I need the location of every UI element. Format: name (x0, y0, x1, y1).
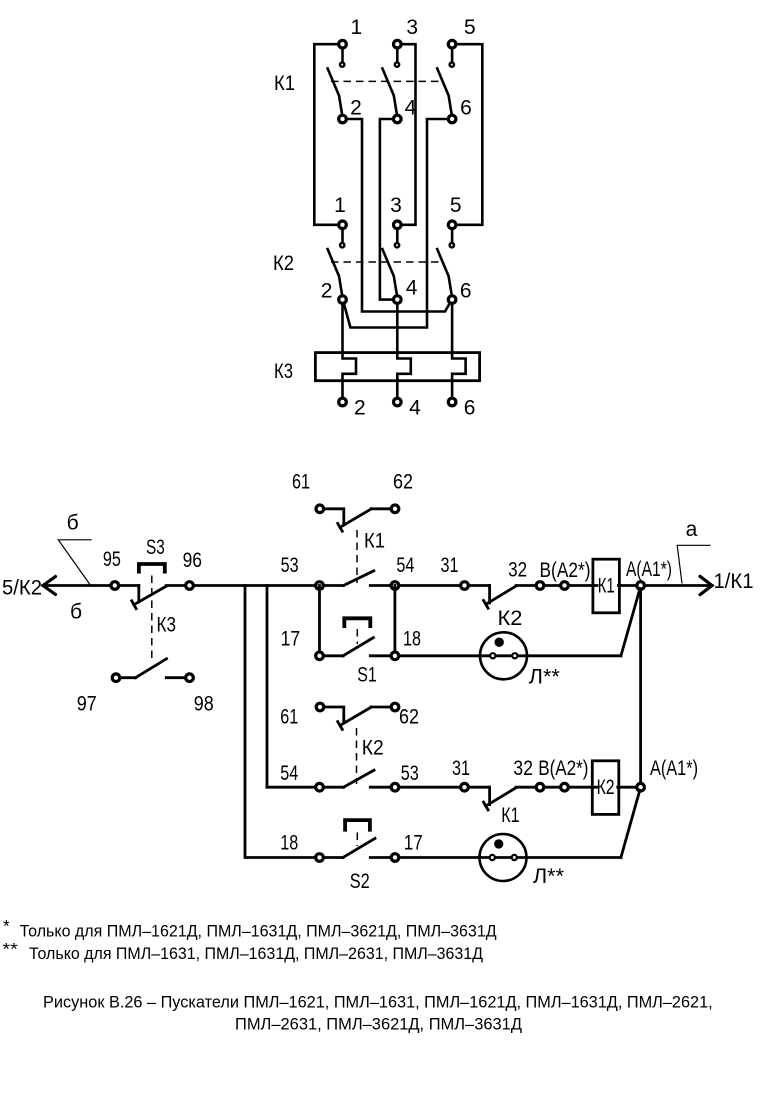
terminal 53 (row1) (316, 582, 324, 590)
K3 heater element 1 (343, 353, 357, 399)
svg-text:3: 3 (406, 16, 418, 39)
aux contact K1 61-62 blade tick (338, 523, 343, 531)
signal lamp body (row2) (480, 834, 527, 881)
terminal B(A2*) (row2) (561, 783, 569, 791)
signal lamp body (row1) (480, 632, 527, 679)
svg-text:*: * (3, 917, 10, 936)
svg-text:95: 95 (103, 548, 121, 571)
wire: K1 contact 6 crossover to K2 contact 2 (343, 119, 452, 328)
svg-text:18: 18 (280, 832, 298, 855)
aux contact K1 61-62 stub and bend (323, 509, 343, 525)
svg-text:К2: К2 (273, 252, 294, 275)
svg-text:ПМЛ–2631, ПМЛ–3621Д, ПМЛ–3631Д: ПМЛ–2631, ПМЛ–3621Д, ПМЛ–3631Д (235, 1015, 522, 1034)
terminal 95 (111, 582, 119, 590)
aux contact K2 61-62 blade (row2) (340, 707, 371, 725)
K2 terminal 6 (448, 296, 456, 304)
svg-text:62: 62 (399, 706, 419, 729)
K1 pole 1 fixed contact (340, 62, 344, 66)
svg-text:Л**: Л** (529, 666, 560, 689)
lamp contact right (row2) (512, 855, 517, 860)
svg-text:К2: К2 (597, 776, 615, 799)
button S2 bracket (345, 820, 370, 832)
svg-text:S3: S3 (146, 536, 165, 559)
coil K1 box (593, 559, 620, 613)
wire: right bus A(A1*) row1 down to row2 (639, 589, 642, 784)
contact S2 blade (343, 838, 375, 857)
aux contact K2 61-62 stub and bend (row2) (324, 707, 344, 723)
svg-text:К1: К1 (364, 530, 385, 553)
K2 pole 1 blade (328, 249, 343, 296)
svg-text:В(А2*): В(А2*) (538, 757, 588, 780)
terminal 31 (row1) (461, 582, 469, 590)
terminal A(A1*) (row2) (637, 783, 645, 791)
wire: K1 terminal 3 right bus down to K2 terminal 3 (397, 44, 415, 225)
contact K1 53-54 blade (344, 571, 374, 586)
K1 terminal 1 (339, 40, 347, 48)
K2 terminal 1 (339, 221, 347, 229)
arrow to 1/K1 (700, 576, 712, 594)
terminal 54 (row2) (316, 783, 324, 791)
S2 linkage dashed (356, 833, 358, 847)
svg-text:К1: К1 (598, 575, 615, 598)
arrow to 5/K2 (43, 577, 56, 595)
K1 pole 2 fixed contact (395, 62, 399, 66)
K1 pole 3 fixed contact (450, 62, 454, 66)
coil K2 box (592, 761, 619, 815)
aux contact K1 61-62 stub right (371, 507, 391, 510)
svg-text:98: 98 (194, 693, 214, 716)
svg-text:17: 17 (404, 832, 423, 855)
contact K3 97-98 stub right (166, 676, 189, 679)
terminal 32 (row1) (536, 582, 544, 590)
terminal 61 (row1) (316, 505, 324, 513)
svg-text:31: 31 (441, 554, 459, 577)
lamp dot (row1) (495, 638, 504, 647)
K2 aux linkage dashed (row2) (356, 728, 358, 784)
wire: K1 contact 2 crossover to K2 contact 6 (343, 119, 452, 312)
K1 terminal 2 (339, 115, 347, 123)
svg-text:53: 53 (401, 762, 419, 785)
terminal 97 (112, 674, 120, 682)
svg-text:31: 31 (452, 757, 470, 780)
wire: 53 down to 17 (318, 586, 321, 656)
K1 terminal 4 (394, 115, 402, 123)
button S1 bracket (344, 618, 370, 628)
contact K3 97-98 stub left (116, 676, 136, 679)
K1 pole 1 fixed stem (341, 44, 344, 64)
K2 pole 1 fixed contact (340, 243, 344, 247)
K3 output terminal 4 (394, 398, 402, 406)
K1 terminal 3 (394, 40, 402, 48)
svg-text:1/К1: 1/К1 (714, 570, 754, 593)
svg-text:5: 5 (464, 16, 476, 39)
K1 pole 2 fixed stem (396, 44, 399, 64)
terminal 62 (row1) (391, 505, 399, 513)
lamp contact left (row1) (490, 653, 495, 658)
wire: row2 main line from bus B to contact 54-53 (267, 786, 344, 789)
node a leader line (677, 545, 710, 583)
terminal B(A2*) (row1) (561, 582, 569, 590)
S1 linkage dashed (356, 629, 358, 644)
contact K3 95-96 blade tick (132, 601, 136, 609)
K3 output terminal 6 (448, 398, 456, 406)
svg-text:Только для ПМЛ–1621Д, ПМЛ–1631: Только для ПМЛ–1621Д, ПМЛ–1631Д, ПМЛ–362… (20, 922, 497, 941)
K2 pole 3 blade (437, 249, 452, 296)
S3/K3 linkage dashed line (151, 576, 153, 662)
svg-text:18: 18 (403, 628, 421, 651)
terminal 31 (row2) (461, 783, 469, 791)
K1 terminal 6 (448, 115, 456, 123)
svg-text:Рисунок В.26 – Пускатели ПМЛ–1: Рисунок В.26 – Пускатели ПМЛ–1621, ПМЛ–1… (43, 993, 713, 1012)
terminal 61 (row2) (316, 703, 324, 711)
K1 pole 3 fixed stem (451, 44, 454, 64)
NC contact K1 blade tick (row2) (484, 802, 489, 810)
svg-text:6: 6 (460, 280, 472, 303)
thermal relay K3 box (315, 353, 479, 381)
NC contact K1 blade (row2) (486, 788, 516, 806)
K2 linkage dashed line (331, 261, 443, 263)
NC contact K1 fixed lead bend (row2) (488, 787, 491, 804)
svg-text:Л**: Л** (533, 865, 564, 888)
svg-text:1: 1 (351, 16, 363, 39)
contact S2 stub right (370, 856, 391, 859)
terminal 18 (row2) (316, 854, 324, 862)
svg-text:97: 97 (77, 693, 97, 716)
wire: diagonal lamp line up to A(A1*) (row1) (621, 589, 640, 656)
svg-text:6: 6 (464, 397, 476, 420)
wire: 32 through coil K2 to A(A1*) (row2) (516, 786, 641, 789)
wire: 53 to NC contact K1 (row2) (370, 786, 489, 789)
svg-text:б: б (70, 600, 82, 623)
terminal 17 (row2) (391, 854, 399, 862)
K2 pole 2 fixed contact (395, 243, 399, 247)
svg-text:2: 2 (350, 97, 362, 120)
K1 pole 3 blade (437, 69, 452, 116)
NC contact K2 blade tick (row1) (484, 600, 489, 608)
svg-text:5: 5 (450, 194, 462, 217)
contact K2 54-53 blade (row2) (344, 770, 375, 787)
wire: main control line left segment to 95 (43, 584, 139, 587)
svg-text:К1: К1 (501, 804, 519, 827)
K2 terminal 3 (394, 221, 402, 229)
svg-text:S2: S2 (350, 870, 370, 893)
svg-text:а: а (686, 518, 698, 541)
svg-text:В(А2*): В(А2*) (540, 559, 591, 582)
terminal 18 (row1) (391, 652, 399, 660)
wire: K2 contact 2 down to K3 heater (341, 300, 344, 353)
wire: main control line 96 to contact 53-54 (166, 584, 343, 587)
wire: left bus B from junction down to row2 main (266, 586, 269, 788)
svg-text:Только для ПМЛ–1631, ПМЛ–1631Д: Только для ПМЛ–1631, ПМЛ–1631Д, ПМЛ–2631… (29, 944, 483, 963)
K1 pole 1 blade (328, 69, 343, 116)
NC contact K2 fixed lead bend (row1) (488, 586, 491, 603)
wire: 17 through lamp to diagonal (row2) (399, 856, 621, 859)
terminal 32 (row2) (536, 783, 544, 791)
contact S2 stub left (323, 856, 343, 859)
terminal 98 (186, 674, 194, 682)
node b leader line (58, 540, 91, 585)
svg-text:А(А1*): А(А1*) (650, 757, 698, 780)
K2 pole 2 blade (382, 249, 397, 296)
svg-text:62: 62 (393, 471, 413, 494)
wire: K2 contact 4 down to K3 heater (396, 300, 399, 353)
terminal 17 (row1) (316, 652, 324, 660)
svg-text:4: 4 (405, 97, 417, 120)
contact S1 blade (343, 638, 373, 656)
svg-text:4: 4 (409, 397, 421, 420)
svg-text:32: 32 (513, 757, 533, 780)
K2 pole 3 fixed contact (450, 243, 454, 247)
svg-text:32: 32 (508, 559, 527, 582)
svg-text:53: 53 (281, 554, 299, 577)
K2 pole 2 fixed stem (396, 225, 399, 245)
K1 linkage dashed line (331, 80, 443, 82)
K1 terminal 5 (448, 40, 456, 48)
K3 output terminal 2 (339, 398, 347, 406)
svg-text:2: 2 (354, 397, 366, 420)
K3 heater element 2 (397, 353, 411, 399)
contact S1 stub right (370, 654, 391, 657)
terminal 96 (186, 582, 194, 590)
wire: diagonal lamp line up to A(A1*) (row2) (621, 790, 640, 857)
wire: K1 terminal 5 right bus down to K2 terminal 5 (452, 44, 482, 225)
svg-text:3: 3 (390, 194, 402, 217)
svg-text:17: 17 (281, 628, 301, 651)
terminal A(A1*) (row1) (637, 582, 645, 590)
K2 terminal 5 (448, 221, 456, 229)
svg-text:54: 54 (280, 762, 298, 785)
wire: 32 through coil K1 to arrow (516, 584, 712, 587)
NC contact K2 blade (row1) (486, 586, 516, 604)
K2 terminal 4 (394, 296, 402, 304)
svg-text:1: 1 (334, 194, 346, 217)
K2 pole 1 fixed stem (341, 225, 344, 245)
svg-text:К2: К2 (362, 737, 384, 760)
svg-text:б: б (67, 512, 79, 535)
contact K3 97-98 blade (136, 659, 167, 678)
svg-text:5/К2: 5/К2 (2, 577, 42, 600)
K1 aux linkage dashed (356, 530, 358, 583)
svg-text:54: 54 (396, 554, 414, 577)
contact K3 95-96 fixed lead bend (137, 586, 140, 602)
contact K3 95-96 blade (134, 586, 166, 605)
aux contact K2 61-62 stub right (row2) (371, 706, 391, 709)
wire: 54 to NC contact K2 (370, 584, 489, 587)
K2 pole 3 fixed stem (451, 225, 454, 245)
svg-text:2: 2 (321, 280, 333, 303)
aux contact K1 61-62 blade (340, 509, 371, 527)
terminal 54 (row1) (391, 582, 399, 590)
svg-text:4: 4 (406, 277, 418, 300)
svg-text:61: 61 (292, 471, 310, 494)
wire: 54 down to 18 (393, 586, 396, 656)
svg-text:К3: К3 (274, 360, 293, 383)
button S3 bracket (139, 564, 165, 574)
wire: 18 through lamp to diagonal (row1) (399, 654, 621, 657)
K3 heater element 3 (452, 353, 466, 399)
terminal 62 (row2) (391, 703, 399, 711)
svg-text:А(А1*): А(А1*) (626, 558, 672, 581)
wire: K1 contact 4 down to K2 contact 4 (380, 119, 397, 300)
wire: K2 contact 6 down to K3 heater (451, 300, 454, 353)
lamp contact left (row2) (490, 855, 495, 860)
contact S1 stub left (323, 654, 343, 657)
svg-text:6: 6 (460, 97, 472, 120)
terminal 53 (row2) (391, 783, 399, 791)
K1 pole 2 blade (382, 69, 397, 116)
wire: K1 terminal 1 to left bus down to K2 terminal 1 (314, 44, 342, 225)
svg-text:К1: К1 (274, 72, 295, 95)
svg-text:К3: К3 (157, 614, 177, 637)
lamp dot (row2) (494, 839, 503, 848)
aux contact K2 61-62 blade tick (row2) (338, 722, 343, 730)
svg-text:**: ** (2, 940, 18, 959)
svg-text:96: 96 (183, 549, 202, 572)
svg-text:61: 61 (280, 706, 298, 729)
wire: left bus A from junction down to row2 lamp line (245, 586, 316, 858)
lamp contact right (row1) (512, 653, 517, 658)
svg-text:S1: S1 (357, 664, 377, 687)
svg-text:К2: К2 (498, 607, 523, 630)
K2 terminal 2 (339, 296, 347, 304)
